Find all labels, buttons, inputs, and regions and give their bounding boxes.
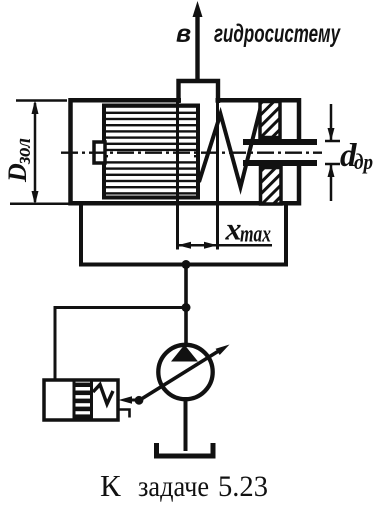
spring <box>199 106 261 187</box>
svg-text:гидросистему: гидросистему <box>214 20 341 48</box>
orifice channel top bar <box>243 139 317 145</box>
pipe down from chamber <box>184 265 188 346</box>
svg-text:в: в <box>176 20 191 48</box>
d_dr tick marks <box>325 140 340 143</box>
open top of valve body into outlet box <box>181 97 216 104</box>
Xmax right extension line <box>216 100 219 250</box>
dimension d_dr: arrows <box>330 104 333 141</box>
svg-text:D: D <box>3 163 32 183</box>
svg-text:др: др <box>354 149 373 174</box>
control arrow into valve <box>127 399 139 402</box>
control valve hatch bars <box>76 383 91 419</box>
svg-text:зол: зол <box>10 138 35 165</box>
pump triangle (flow direction) <box>171 345 198 362</box>
outlet port box (open bottom) <box>179 81 219 103</box>
pump variable-displacement arrow <box>139 350 221 401</box>
white band across spool at centerline <box>108 151 194 158</box>
spool stem bracket <box>94 142 105 163</box>
svg-text:К: К <box>100 468 121 503</box>
control valve divider <box>73 380 76 420</box>
svg-text:5.23: 5.23 <box>218 470 268 503</box>
control valve drain step <box>119 410 130 418</box>
label Dzol (rotated) <box>3 138 35 183</box>
tank symbol <box>157 443 214 456</box>
seat block lower (hatched) <box>261 168 282 205</box>
spool (hatched piston) <box>104 106 198 198</box>
control valve spring <box>93 385 113 405</box>
control valve outer box <box>44 380 118 420</box>
control valve divider 2 <box>90 380 93 420</box>
lower chamber box <box>81 204 286 265</box>
white gap in right wall at orifice <box>295 145 303 160</box>
orifice channel bottom bar <box>243 160 317 166</box>
pipe from pump to tank <box>184 399 188 451</box>
Xmax left extension line <box>176 100 179 250</box>
seat block upper (hatched) <box>260 102 280 138</box>
branch line to control valve <box>55 308 186 380</box>
junction dot on chamber bottom <box>182 260 191 269</box>
dimension Dzol: dimension line with arrows <box>34 103 37 202</box>
svg-text:задаче: задаче <box>138 470 209 503</box>
pump circle <box>158 345 212 399</box>
junction dot at branch <box>182 303 191 312</box>
control junction dot <box>135 396 144 405</box>
dimension Dzol: extension lines <box>16 99 67 102</box>
outlet arrow to hydraulic system <box>195 12 199 80</box>
svg-text:x: x <box>225 211 242 247</box>
centerline dash-dot <box>61 151 322 153</box>
valve body <box>71 100 300 203</box>
Xmax dimension line with arrows <box>178 244 273 247</box>
svg-text:max: max <box>240 222 271 248</box>
